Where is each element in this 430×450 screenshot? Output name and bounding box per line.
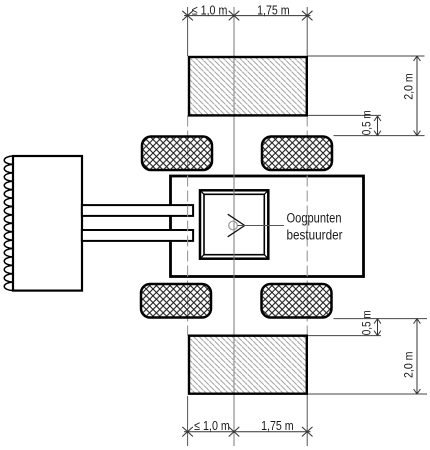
svg-text:1,75 m: 1,75 m <box>261 418 294 433</box>
svg-text:0,5 m: 0,5 m <box>362 110 374 135</box>
svg-text:Oogpunten: Oogpunten <box>287 211 342 226</box>
svg-text:bestuurder: bestuurder <box>287 227 343 242</box>
svg-text:1,75 m: 1,75 m <box>257 3 290 18</box>
svg-text:0,5 m: 0,5 m <box>362 310 374 335</box>
svg-text:2,0 m: 2,0 m <box>404 352 416 379</box>
svg-text:≤ 1,0 m: ≤ 1,0 m <box>192 3 228 18</box>
svg-text:≤ 1,0 m: ≤ 1,0 m <box>194 418 230 433</box>
svg-text:2,0 m: 2,0 m <box>404 73 416 100</box>
